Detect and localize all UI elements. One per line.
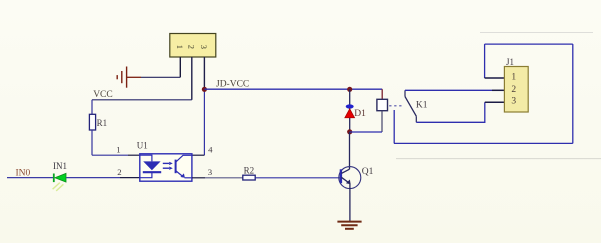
pin 1 of top connector <box>179 57 181 77</box>
dashed link coil to switch <box>389 105 403 107</box>
switch pole wire <box>393 110 395 143</box>
wire pole loop left drop <box>484 44 486 78</box>
wire VCC column upper <box>91 100 93 115</box>
connector J1 <box>504 67 528 113</box>
svg-text:J1: J1 <box>506 57 514 67</box>
pin 4 of U1 <box>192 154 204 156</box>
svg-text:3: 3 <box>208 167 213 177</box>
wire switch NC to J1 pin3 <box>416 102 485 122</box>
diode D1 <box>345 104 355 117</box>
diode D1 junction dot top <box>347 87 352 92</box>
wire IN0 <box>7 177 54 179</box>
LED IN1 <box>53 173 66 191</box>
svg-text:3: 3 <box>199 45 209 49</box>
pin 1 of U1 <box>128 154 140 156</box>
wire JD-VCC column down to U1 pin4 <box>203 89 205 155</box>
wire JD-VCC rail <box>204 88 382 90</box>
svg-text:R2: R2 <box>244 166 255 176</box>
wire D1 column <box>349 89 351 132</box>
wire U1 to R2 <box>205 177 243 179</box>
transistor Q1 collector wire <box>349 132 351 169</box>
junction dot D1 bottom <box>347 129 352 134</box>
svg-text:R1: R1 <box>97 118 108 128</box>
faint artifact line top right <box>480 32 593 34</box>
svg-text:Q1: Q1 <box>362 167 374 177</box>
svg-text:2: 2 <box>187 45 197 49</box>
pin 2 of top connector <box>191 57 193 100</box>
svg-text:1: 1 <box>175 45 185 49</box>
ground (below Q1) <box>337 222 361 229</box>
resistor R1 <box>89 114 95 130</box>
svg-text:2: 2 <box>117 167 121 177</box>
relay coil top pin <box>381 89 383 99</box>
transistor Q1 emitter wire <box>349 184 351 222</box>
wire pole loop top <box>485 43 573 45</box>
svg-text:D1: D1 <box>354 109 366 119</box>
pin 3 of J1 <box>485 101 505 103</box>
wire coil to D1 <box>350 131 382 133</box>
connector P1 (top, rotated) <box>170 34 216 58</box>
resistor R2 <box>243 175 255 180</box>
U1 phototransistor <box>176 155 192 178</box>
svg-text:3: 3 <box>511 97 516 107</box>
wire switch top to J1 pin2 <box>405 89 492 91</box>
relay coil K1 box <box>377 99 388 110</box>
switch bottom stub <box>415 116 417 122</box>
svg-text:IN0: IN0 <box>16 168 31 178</box>
svg-text:2: 2 <box>511 85 516 95</box>
svg-text:1: 1 <box>511 73 516 83</box>
pin 2 of U1 <box>120 177 140 179</box>
switch top stub <box>404 90 406 96</box>
pin 3 of U1 <box>192 177 205 179</box>
wire pole loop bottom <box>394 142 573 144</box>
wire R2 to Q1 base <box>255 177 340 179</box>
svg-text:K1: K1 <box>416 100 428 110</box>
U1 internal LED <box>140 155 161 178</box>
svg-text:U1: U1 <box>137 141 148 151</box>
relay coil bottom pin <box>381 111 383 132</box>
svg-text:IN1: IN1 <box>53 161 67 171</box>
junction dot JD-VCC <box>202 87 207 92</box>
optocoupler U1 box <box>140 154 192 181</box>
wire VCC column lower <box>91 130 93 155</box>
wire pole loop right <box>572 44 574 143</box>
wire pin1 row <box>92 154 128 156</box>
svg-text:4: 4 <box>208 144 213 154</box>
transistor Q1 <box>339 167 361 189</box>
switch arm <box>405 97 416 117</box>
pin 1 of J1 <box>485 77 505 79</box>
U1 coupling arrows <box>163 162 173 170</box>
pin 3 of top connector (upper) <box>203 57 205 89</box>
wire gnd row <box>141 76 180 78</box>
wire LED to U1 <box>66 177 120 179</box>
svg-text:JD-VCC: JD-VCC <box>216 79 249 89</box>
wire VCC row <box>92 99 192 101</box>
svg-text:1: 1 <box>116 144 120 154</box>
svg-text:VCC: VCC <box>93 90 113 100</box>
ground (top left power ground) <box>117 67 141 88</box>
pin 2 of J1 <box>492 89 504 91</box>
faint artifact line mid right <box>396 158 601 160</box>
